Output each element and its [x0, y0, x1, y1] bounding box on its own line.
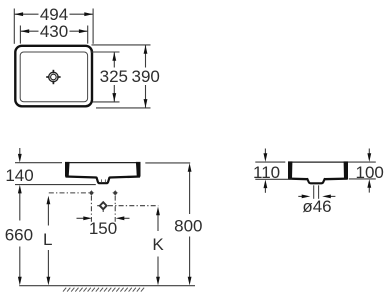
dimension 430: [20, 22, 87, 44]
svg-text:ø46: ø46: [302, 197, 331, 216]
drain symbol: [46, 70, 60, 84]
side view right wall: [344, 161, 348, 179]
dimension 494: [14, 5, 93, 44]
svg-text:800: 800: [174, 217, 202, 236]
svg-text:140: 140: [5, 166, 33, 185]
svg-text:L: L: [43, 230, 52, 249]
side view basin rim: [288, 161, 348, 163]
faucet hole right: [112, 190, 118, 196]
drain centreline: [97, 206, 158, 212]
dimension L: [43, 196, 52, 286]
faucet hole left: [88, 190, 94, 196]
svg-text:660: 660: [5, 226, 33, 245]
dimension 800: [145, 163, 202, 286]
front view basin rim: [65, 162, 141, 164]
floor line: [19, 285, 195, 287]
svg-text:150: 150: [89, 219, 117, 238]
dimension 390: [92, 45, 160, 108]
dimension o46: [298, 195, 335, 216]
drain pipe lines: [314, 185, 319, 199]
top view outer rim: [15, 46, 92, 107]
svg-text:390: 390: [132, 67, 160, 86]
front view right wall: [136, 162, 141, 177]
dimension 325: [91, 52, 128, 102]
dimension K: [152, 207, 164, 286]
svg-text:100: 100: [356, 163, 384, 182]
dimension 140: [5, 148, 95, 185]
floor hatching: [63, 288, 144, 292]
side view left wall: [288, 161, 292, 179]
top view inner bowl: [20, 52, 87, 102]
svg-text:430: 430: [40, 22, 68, 41]
svg-text:110: 110: [253, 163, 280, 182]
dimension 100: [348, 149, 384, 193]
svg-text:K: K: [152, 235, 164, 254]
front view left wall: [65, 162, 70, 177]
front view bowl bottom: [66, 177, 141, 184]
drain centre diamond: [100, 202, 107, 209]
dimension 660: [5, 185, 33, 286]
dimension 110: [253, 149, 292, 193]
svg-text:325: 325: [100, 67, 128, 86]
side view bowl bottom: [289, 178, 348, 183]
dimension 150: [77, 216, 130, 237]
faucet centreline: [49, 193, 115, 222]
